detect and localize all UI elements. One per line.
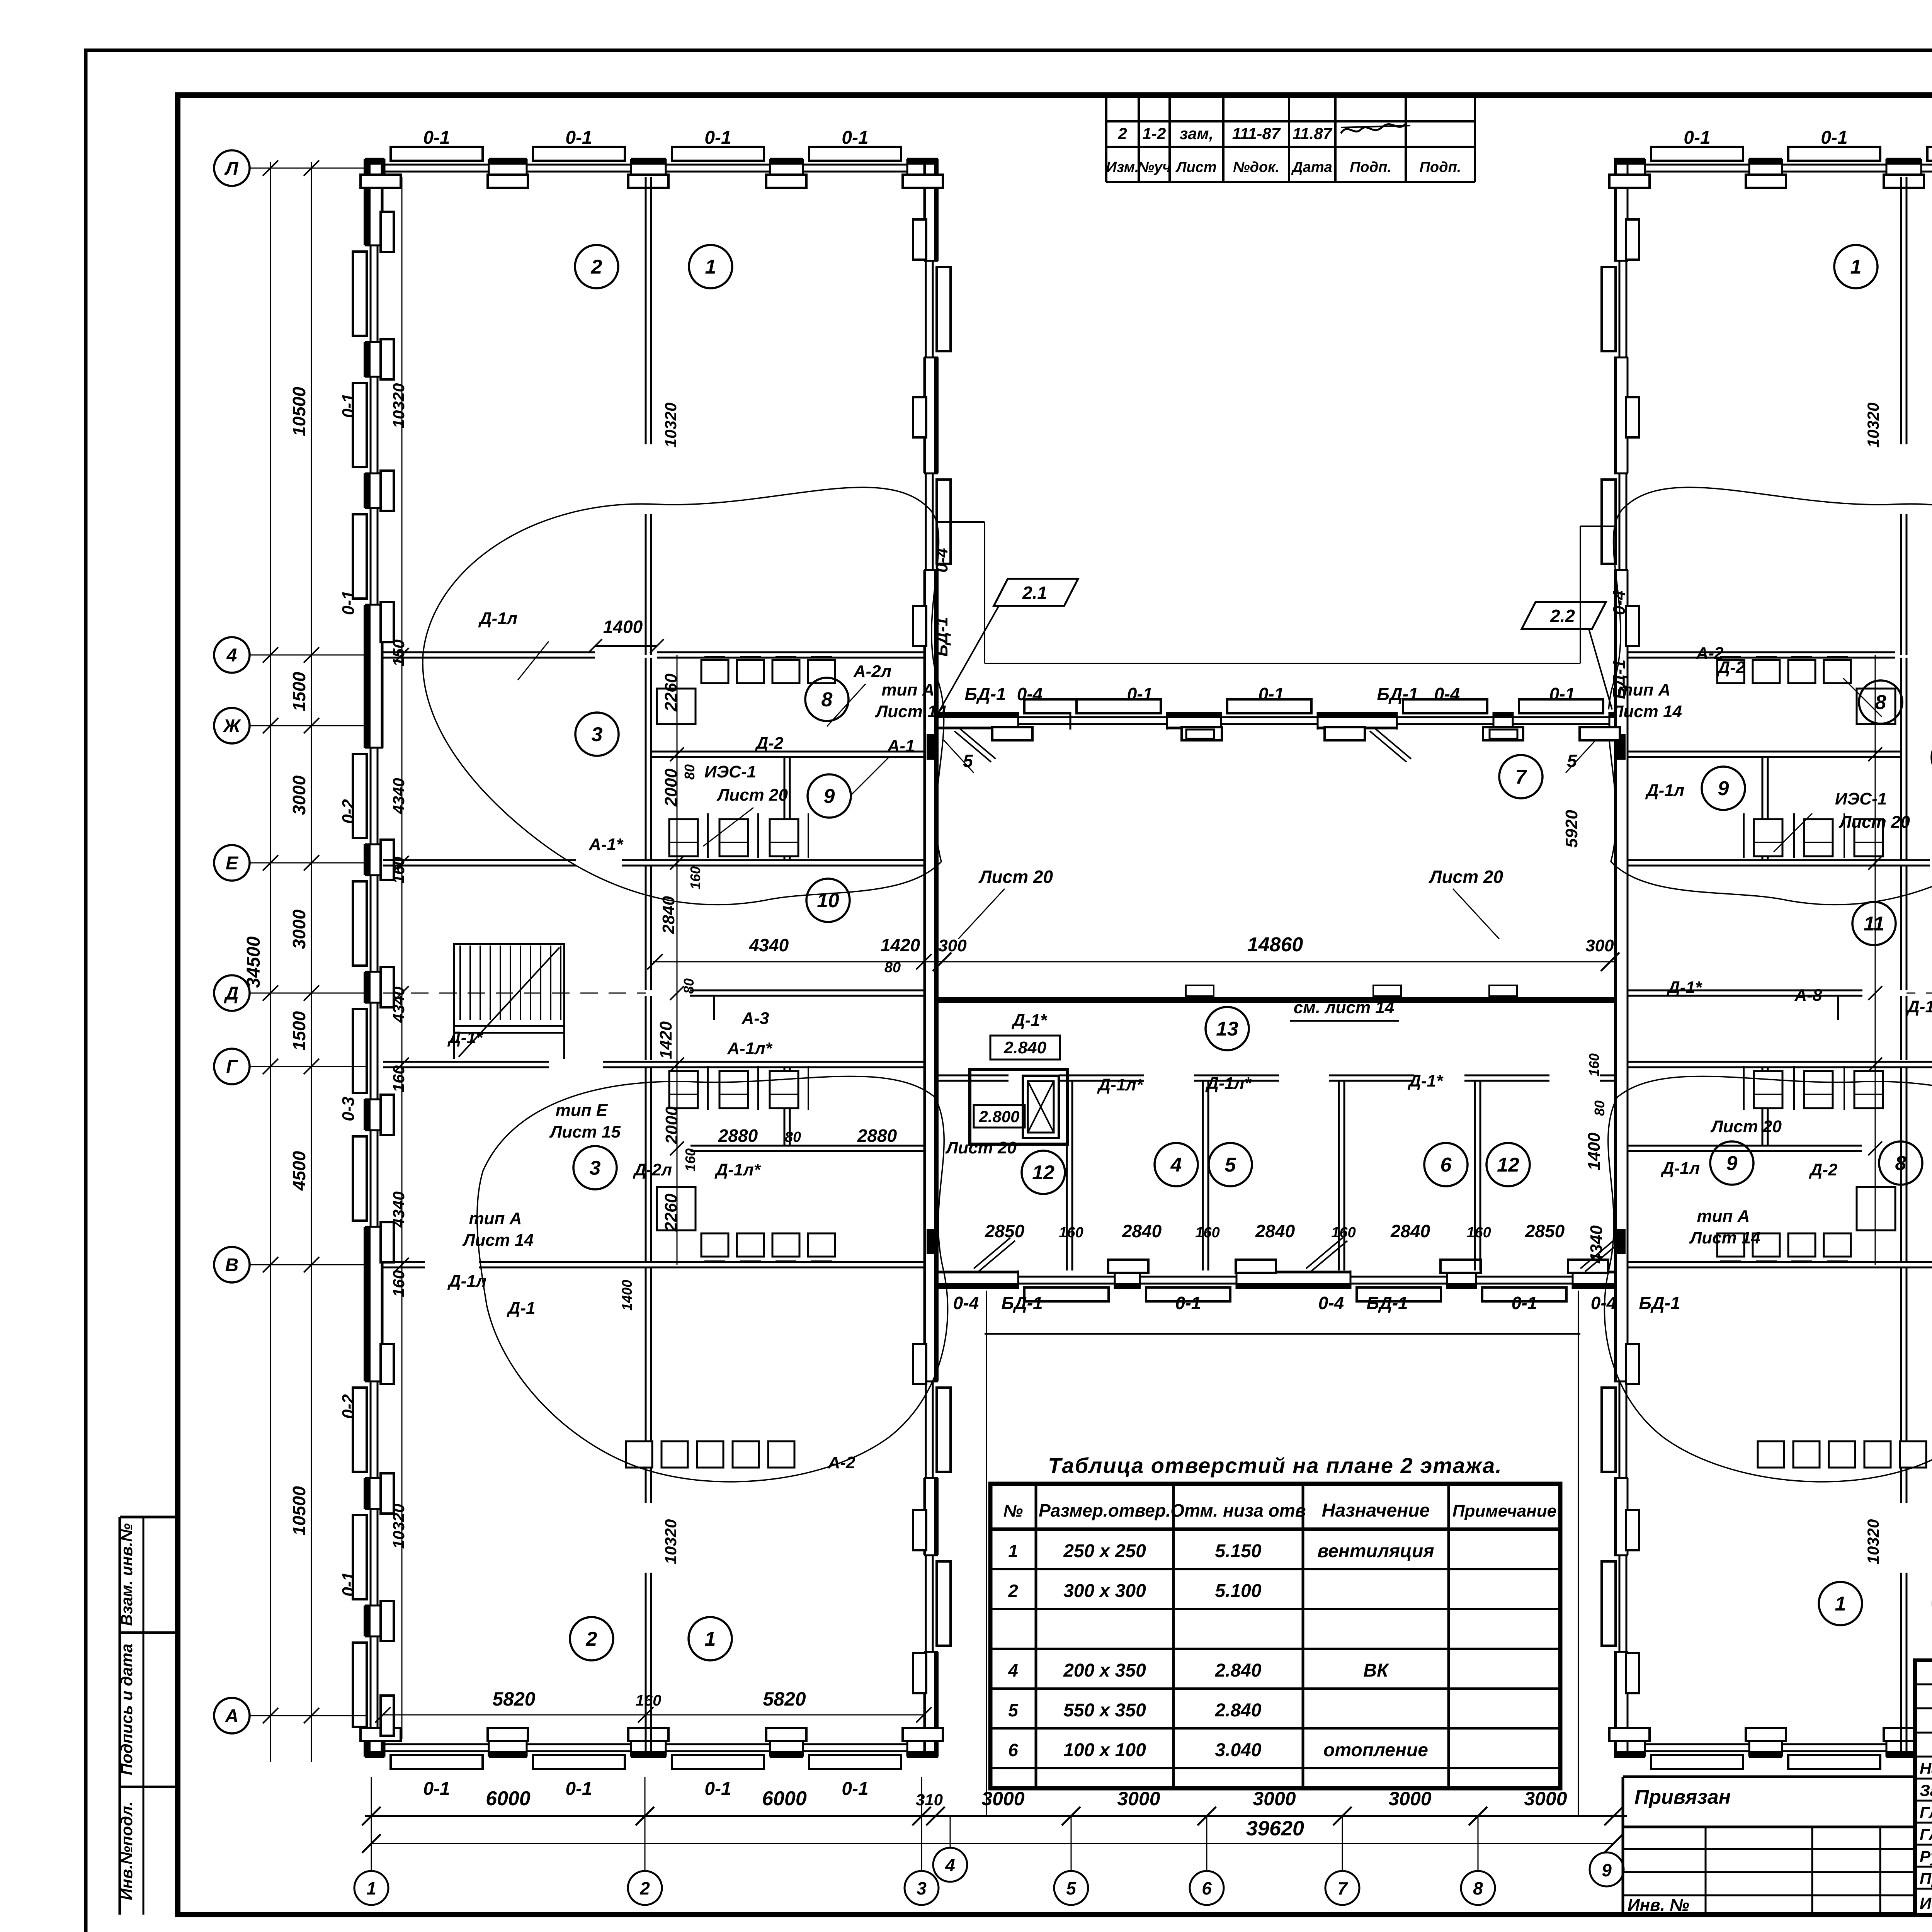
svg-text:10320: 10320 xyxy=(662,403,680,448)
svg-text:Рук. гр.: Рук. гр. xyxy=(1920,1847,1932,1866)
svg-text:Д-1*: Д-1* xyxy=(447,1028,483,1047)
svg-text:Таблица отверстий на плане: Таблица отверстий на плане 2 этажа. xyxy=(1048,1453,1502,1478)
svg-text:Д-1*: Д-1* xyxy=(1011,1011,1048,1030)
svg-text:0-1: 0-1 xyxy=(842,1779,868,1799)
svg-text:2260: 2260 xyxy=(662,673,680,712)
svg-text:80: 80 xyxy=(1592,1100,1607,1116)
svg-text:160: 160 xyxy=(636,1692,662,1709)
svg-text:Подп.: Подп. xyxy=(1420,159,1461,175)
svg-text:Д-2: Д-2 xyxy=(755,734,784,753)
svg-text:4: 4 xyxy=(1170,1154,1182,1176)
svg-text:11: 11 xyxy=(1864,913,1884,935)
svg-text:2: 2 xyxy=(1117,124,1127,143)
svg-text:6000: 6000 xyxy=(486,1787,531,1810)
svg-text:А-2: А-2 xyxy=(828,1453,855,1472)
svg-text:4340: 4340 xyxy=(1587,1225,1606,1264)
svg-text:Д-2л: Д-2л xyxy=(633,1160,672,1179)
svg-text:11.87: 11.87 xyxy=(1293,124,1333,143)
svg-text:1: 1 xyxy=(705,256,716,278)
svg-text:№док.: №док. xyxy=(1233,159,1279,175)
svg-text:39620: 39620 xyxy=(1246,1817,1304,1840)
svg-text:8: 8 xyxy=(1473,1878,1483,1898)
svg-text:Инв. №: Инв. № xyxy=(1628,1896,1689,1915)
svg-text:Лист 15: Лист 15 xyxy=(549,1122,621,1141)
svg-text:Д-1л: Д-1л xyxy=(447,1272,486,1291)
svg-text:0-1: 0-1 xyxy=(423,1779,450,1799)
svg-text:Д-1л*: Д-1л* xyxy=(1205,1074,1252,1093)
svg-text:0-4: 0-4 xyxy=(1017,684,1043,704)
svg-text:300 х 300: 300 х 300 xyxy=(1063,1581,1146,1601)
svg-text:№: № xyxy=(1003,1502,1023,1520)
svg-text:вентиляция: вентиляция xyxy=(1317,1541,1434,1561)
svg-text:4: 4 xyxy=(945,1855,955,1875)
svg-text:12: 12 xyxy=(1032,1162,1054,1184)
svg-text:А-1: А-1 xyxy=(887,736,915,755)
svg-text:Д-1л: Д-1л xyxy=(1645,781,1684,800)
svg-text:160: 160 xyxy=(1059,1225,1083,1241)
svg-text:7: 7 xyxy=(1337,1878,1348,1898)
svg-text:БД-1: БД-1 xyxy=(1366,1293,1408,1313)
svg-text:3000: 3000 xyxy=(1117,1788,1160,1810)
svg-text:4340: 4340 xyxy=(389,1191,408,1228)
svg-text:В: В xyxy=(225,1255,239,1276)
svg-text:2000: 2000 xyxy=(662,1106,681,1145)
svg-text:Е: Е xyxy=(226,853,239,874)
svg-text:№уч: №уч xyxy=(1138,159,1171,175)
svg-text:2.840: 2.840 xyxy=(1214,1700,1261,1721)
svg-text:0-4: 0-4 xyxy=(953,1293,979,1313)
svg-text:Ж: Ж xyxy=(222,716,241,736)
svg-text:0-1: 0-1 xyxy=(423,128,450,148)
svg-text:0-1: 0-1 xyxy=(704,128,731,148)
svg-text:Лист 14: Лист 14 xyxy=(1689,1228,1760,1247)
svg-text:3000: 3000 xyxy=(981,1788,1024,1810)
svg-text:10320: 10320 xyxy=(389,1504,408,1549)
svg-text:Лист 20: Лист 20 xyxy=(945,1138,1017,1157)
svg-text:9: 9 xyxy=(824,785,835,808)
svg-text:160: 160 xyxy=(389,1270,408,1297)
svg-text:111-87: 111-87 xyxy=(1232,124,1281,143)
svg-text:0-1: 0-1 xyxy=(565,1779,592,1799)
svg-text:3.040: 3.040 xyxy=(1215,1740,1261,1760)
svg-text:2.1: 2.1 xyxy=(1022,583,1047,603)
svg-text:0-1: 0-1 xyxy=(1175,1293,1201,1313)
svg-text:1420: 1420 xyxy=(656,1021,675,1059)
svg-text:5: 5 xyxy=(1225,1154,1236,1176)
svg-text:100 х 100: 100 х 100 xyxy=(1063,1740,1146,1760)
svg-text:3000: 3000 xyxy=(1253,1788,1296,1810)
svg-text:1400: 1400 xyxy=(603,617,643,637)
svg-text:1: 1 xyxy=(1008,1541,1018,1561)
svg-text:2850: 2850 xyxy=(1525,1221,1565,1241)
svg-text:Лист 20: Лист 20 xyxy=(1710,1117,1782,1136)
svg-text:0-4: 0-4 xyxy=(1434,684,1460,704)
svg-text:3: 3 xyxy=(917,1878,927,1898)
svg-text:отопление: отопление xyxy=(1323,1740,1428,1760)
svg-text:6000: 6000 xyxy=(762,1787,807,1810)
svg-text:Взам. инв.№: Взам. инв.№ xyxy=(117,1523,136,1626)
svg-text:8: 8 xyxy=(1875,691,1886,714)
svg-text:БД-1: БД-1 xyxy=(964,684,1006,704)
svg-text:0-1: 0-1 xyxy=(339,393,358,418)
svg-text:Нач.АПМ1: Нач.АПМ1 xyxy=(1920,1759,1932,1777)
svg-text:10500: 10500 xyxy=(289,1486,309,1536)
svg-text:3: 3 xyxy=(592,723,603,746)
svg-text:5920: 5920 xyxy=(1562,810,1581,848)
svg-text:Исполн.: Исполн. xyxy=(1920,1894,1932,1912)
svg-text:13: 13 xyxy=(1216,1018,1238,1040)
svg-text:5: 5 xyxy=(963,751,973,771)
svg-text:ИЭС-1: ИЭС-1 xyxy=(1835,789,1887,808)
svg-text:0-1: 0-1 xyxy=(842,128,868,148)
svg-text:3: 3 xyxy=(590,1157,601,1179)
svg-text:БД-1: БД-1 xyxy=(1610,660,1629,699)
svg-text:0-1: 0-1 xyxy=(1821,128,1847,148)
svg-text:5820: 5820 xyxy=(492,1688,535,1710)
svg-text:3000: 3000 xyxy=(1524,1788,1567,1810)
svg-text:7: 7 xyxy=(1515,766,1527,788)
svg-text:А-2л: А-2л xyxy=(853,662,891,681)
svg-text:А-8: А-8 xyxy=(1794,986,1822,1005)
svg-text:10320: 10320 xyxy=(1864,1519,1882,1565)
svg-text:0-1: 0-1 xyxy=(1512,1293,1537,1313)
svg-text:0-1: 0-1 xyxy=(339,1572,358,1597)
svg-text:3000: 3000 xyxy=(1388,1788,1431,1810)
svg-text:1420: 1420 xyxy=(881,935,920,955)
svg-text:0-1: 0-1 xyxy=(339,590,358,615)
svg-text:0-4: 0-4 xyxy=(1318,1293,1344,1313)
svg-text:2: 2 xyxy=(1008,1581,1018,1601)
svg-text:Изм.: Изм. xyxy=(1106,159,1139,175)
svg-text:4340: 4340 xyxy=(389,986,408,1023)
svg-text:Д-1л: Д-1л xyxy=(478,609,517,628)
svg-text:1500: 1500 xyxy=(289,672,309,711)
svg-text:БД-1: БД-1 xyxy=(1001,1293,1043,1313)
svg-text:4: 4 xyxy=(1008,1660,1018,1680)
svg-text:2840: 2840 xyxy=(1390,1221,1430,1241)
svg-text:1: 1 xyxy=(1850,256,1862,278)
svg-text:БД-1: БД-1 xyxy=(1639,1293,1680,1313)
svg-text:1: 1 xyxy=(705,1628,716,1650)
svg-text:0-4: 0-4 xyxy=(932,548,951,573)
svg-text:Примечание: Примечание xyxy=(1452,1502,1556,1520)
svg-text:2260: 2260 xyxy=(662,1194,680,1232)
svg-text:Подп.: Подп. xyxy=(1350,159,1391,175)
svg-text:1500: 1500 xyxy=(289,1011,309,1051)
svg-text:0-1: 0-1 xyxy=(565,128,592,148)
svg-text:тип А: тип А xyxy=(1697,1207,1750,1226)
svg-text:Г: Г xyxy=(226,1057,238,1077)
svg-text:34500: 34500 xyxy=(243,936,264,988)
svg-text:550 х 350: 550 х 350 xyxy=(1063,1700,1146,1721)
svg-text:150: 150 xyxy=(389,639,408,667)
svg-text:250 х 250: 250 х 250 xyxy=(1063,1541,1146,1561)
svg-text:1: 1 xyxy=(366,1878,376,1898)
svg-text:0-1: 0-1 xyxy=(704,1779,731,1799)
svg-text:2000: 2000 xyxy=(662,769,680,807)
svg-text:0-1: 0-1 xyxy=(1127,684,1153,704)
svg-text:5: 5 xyxy=(1567,751,1577,771)
svg-text:А-2: А-2 xyxy=(1696,644,1724,663)
svg-text:9: 9 xyxy=(1602,1860,1612,1880)
svg-text:Д-1: Д-1 xyxy=(507,1299,536,1318)
svg-text:Д-1*: Д-1* xyxy=(1906,997,1932,1016)
svg-text:Лист 14: Лист 14 xyxy=(875,702,946,721)
svg-text:160: 160 xyxy=(1331,1225,1355,1241)
svg-text:300: 300 xyxy=(1585,936,1614,955)
svg-text:Лист 20: Лист 20 xyxy=(716,786,788,804)
svg-text:Дата: Дата xyxy=(1291,159,1332,175)
svg-text:80: 80 xyxy=(681,978,697,994)
svg-text:9: 9 xyxy=(1726,1152,1738,1175)
svg-text:2840: 2840 xyxy=(1255,1221,1295,1241)
svg-text:Д: Д xyxy=(224,983,239,1004)
svg-text:160: 160 xyxy=(389,1065,408,1092)
svg-text:1400: 1400 xyxy=(1585,1133,1604,1170)
svg-text:5: 5 xyxy=(1066,1878,1077,1898)
svg-text:10320: 10320 xyxy=(389,383,408,429)
svg-text:0-2: 0-2 xyxy=(339,1394,358,1419)
svg-text:2: 2 xyxy=(586,1628,597,1650)
svg-text:80: 80 xyxy=(682,764,697,780)
svg-text:2880: 2880 xyxy=(857,1126,897,1146)
svg-text:2: 2 xyxy=(591,256,602,278)
svg-text:5.100: 5.100 xyxy=(1215,1581,1261,1601)
svg-text:тип Е: тип Е xyxy=(556,1101,608,1120)
svg-text:1: 1 xyxy=(1835,1593,1846,1615)
svg-text:Привязан: Привязан xyxy=(1634,1786,1731,1808)
svg-text:5: 5 xyxy=(1008,1700,1019,1720)
svg-text:0-4: 0-4 xyxy=(1610,590,1629,615)
svg-text:80: 80 xyxy=(785,1129,801,1145)
svg-text:4: 4 xyxy=(226,645,237,666)
svg-text:Лист 20: Лист 20 xyxy=(1429,867,1503,887)
svg-text:160: 160 xyxy=(1586,1053,1602,1077)
svg-text:тип А: тип А xyxy=(469,1209,522,1228)
svg-text:6: 6 xyxy=(1202,1878,1212,1898)
svg-text:14860: 14860 xyxy=(1247,934,1303,956)
svg-text:Отм. низа отв: Отм. низа отв xyxy=(1170,1500,1306,1520)
svg-text:Д-1л*: Д-1л* xyxy=(714,1160,761,1179)
svg-text:2.2: 2.2 xyxy=(1550,606,1575,626)
svg-text:6: 6 xyxy=(1440,1154,1452,1176)
svg-text:160: 160 xyxy=(1195,1225,1219,1241)
svg-text:4340: 4340 xyxy=(389,778,408,814)
svg-text:ИЭС-1: ИЭС-1 xyxy=(704,762,756,781)
svg-text:160: 160 xyxy=(687,866,703,889)
svg-text:ВК: ВК xyxy=(1363,1660,1389,1681)
svg-text:БД-1: БД-1 xyxy=(932,617,951,657)
svg-text:6: 6 xyxy=(1008,1740,1018,1760)
svg-text:9: 9 xyxy=(1718,777,1729,800)
svg-text:А-1л*: А-1л* xyxy=(727,1039,772,1058)
svg-text:2850: 2850 xyxy=(985,1221,1025,1241)
svg-text:Гл.констр: Гл.констр xyxy=(1920,1803,1932,1821)
svg-text:10500: 10500 xyxy=(289,387,309,436)
svg-text:4500: 4500 xyxy=(289,1151,309,1191)
svg-text:1400: 1400 xyxy=(619,1280,635,1311)
svg-text:4340: 4340 xyxy=(749,935,789,955)
svg-text:Л: Л xyxy=(224,158,239,179)
svg-text:2840: 2840 xyxy=(1122,1221,1162,1241)
svg-text:Д-1л: Д-1л xyxy=(1660,1159,1700,1178)
svg-text:2: 2 xyxy=(639,1878,650,1898)
svg-text:3000: 3000 xyxy=(289,909,309,949)
svg-text:Лист 20: Лист 20 xyxy=(978,867,1053,887)
svg-text:10320: 10320 xyxy=(662,1519,680,1565)
svg-text:Лист: Лист xyxy=(1175,159,1216,175)
svg-text:Д-1*: Д-1* xyxy=(1407,1071,1444,1090)
svg-text:0-1: 0-1 xyxy=(1684,128,1710,148)
svg-text:0-3: 0-3 xyxy=(339,1097,358,1121)
svg-text:10: 10 xyxy=(817,889,839,912)
svg-text:160: 160 xyxy=(1466,1225,1491,1241)
svg-text:5.150: 5.150 xyxy=(1215,1541,1261,1561)
svg-text:А: А xyxy=(225,1706,239,1726)
svg-text:2880: 2880 xyxy=(718,1126,758,1146)
svg-text:10320: 10320 xyxy=(1864,403,1882,448)
svg-text:БД-1: БД-1 xyxy=(1377,684,1418,704)
svg-text:Назначение: Назначение xyxy=(1322,1500,1430,1521)
svg-text:0-4: 0-4 xyxy=(1591,1293,1616,1313)
svg-text:Д-2: Д-2 xyxy=(1809,1160,1838,1179)
svg-text:Лист 20: Лист 20 xyxy=(1838,813,1910,832)
svg-text:Размер.отвер.: Размер.отвер. xyxy=(1039,1500,1171,1520)
svg-text:310: 310 xyxy=(916,1791,943,1809)
svg-text:3000: 3000 xyxy=(289,775,309,815)
svg-text:зам,: зам, xyxy=(1180,124,1214,143)
svg-text:ГАП: ГАП xyxy=(1920,1825,1932,1844)
svg-text:0-1: 0-1 xyxy=(1549,684,1575,704)
svg-text:Провер.: Провер. xyxy=(1920,1869,1932,1888)
svg-text:2840: 2840 xyxy=(659,896,678,934)
svg-text:2.840: 2.840 xyxy=(1003,1038,1047,1057)
svg-text:12: 12 xyxy=(1497,1154,1519,1176)
svg-text:А-3: А-3 xyxy=(742,1009,769,1028)
svg-text:Лист 14: Лист 14 xyxy=(462,1231,534,1250)
svg-text:А-1*: А-1* xyxy=(588,835,624,854)
svg-text:1-2: 1-2 xyxy=(1143,124,1166,143)
svg-text:Лист 14: Лист 14 xyxy=(1611,702,1682,721)
svg-text:тип А: тип А xyxy=(882,680,935,699)
svg-text:80: 80 xyxy=(884,959,901,976)
svg-text:8: 8 xyxy=(821,689,833,711)
svg-text:Инв.№подл.: Инв.№подл. xyxy=(117,1801,136,1900)
svg-text:2.840: 2.840 xyxy=(1214,1660,1261,1681)
svg-text:0-1: 0-1 xyxy=(1259,684,1284,704)
svg-text:160: 160 xyxy=(682,1148,698,1172)
svg-text:2.800: 2.800 xyxy=(978,1107,1019,1126)
svg-text:см. лист 14: см. лист 14 xyxy=(1294,998,1394,1017)
svg-text:5820: 5820 xyxy=(763,1688,806,1710)
svg-text:Подпись и дата: Подпись и дата xyxy=(117,1644,136,1775)
svg-text:8: 8 xyxy=(1895,1152,1906,1175)
svg-text:Д-1л*: Д-1л* xyxy=(1097,1075,1143,1094)
svg-text:0-2: 0-2 xyxy=(339,799,358,824)
svg-text:Зам.нач.: Зам.нач. xyxy=(1920,1781,1932,1799)
svg-text:200 х 350: 200 х 350 xyxy=(1063,1660,1146,1681)
svg-text:300: 300 xyxy=(938,936,967,955)
svg-text:Д-1*: Д-1* xyxy=(1666,978,1702,997)
